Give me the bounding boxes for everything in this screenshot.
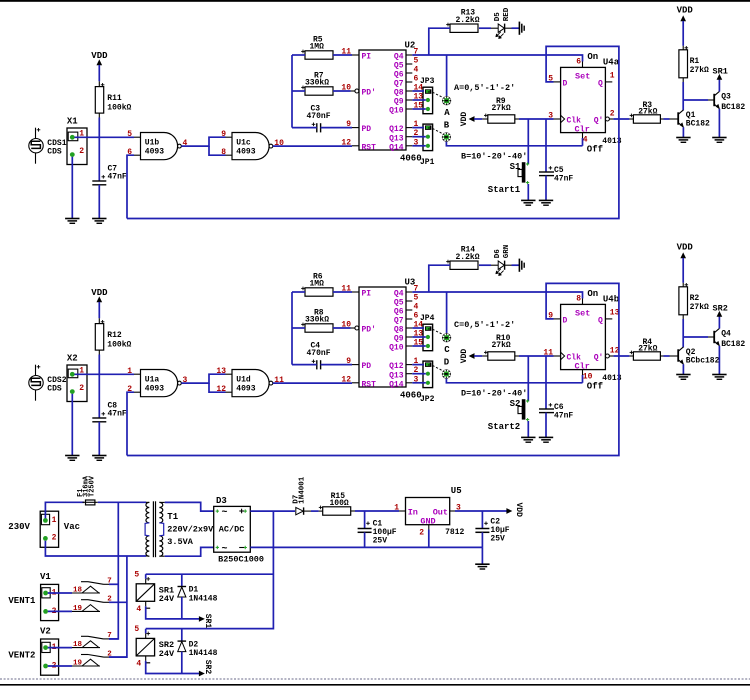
svg-text:A=0,5'-1'-2': A=0,5'-1'-2' — [454, 83, 515, 93]
svg-text:CDS: CDS — [47, 148, 62, 157]
svg-text:330kΩ: 330kΩ — [305, 79, 329, 88]
wire — [71, 394, 73, 456]
svg-text:220V/2x9V: 220V/2x9V — [167, 525, 214, 535]
relay coil SR1 — [134, 570, 175, 614]
svg-text:PD: PD — [362, 362, 372, 371]
svg-text:JP3: JP3 — [420, 77, 435, 86]
svg-text:C: C — [444, 345, 450, 355]
wire — [292, 327, 305, 329]
svg-text:JP4: JP4 — [420, 314, 435, 323]
wire — [98, 350, 100, 418]
svg-text:X2: X2 — [67, 353, 78, 363]
svg-text:47nF: 47nF — [554, 175, 573, 184]
wire — [311, 506, 323, 512]
svg-text:2: 2 — [419, 528, 424, 537]
svg-text:R12: R12 — [107, 331, 122, 340]
svg-text:GND: GND — [420, 516, 435, 526]
wire — [292, 90, 305, 92]
svg-text:6: 6 — [414, 312, 419, 321]
svg-text:D6: D6 — [494, 249, 502, 259]
svg-text:25V: 25V — [373, 537, 388, 546]
wire Clr — [582, 138, 584, 146]
wire — [98, 185, 100, 219]
svg-text:27kΩ: 27kΩ — [638, 107, 657, 116]
svg-text:Q4: Q4 — [394, 53, 404, 62]
svg-text:3.5VA: 3.5VA — [167, 537, 193, 547]
wire — [292, 364, 317, 366]
selector pad C — [433, 329, 452, 355]
wire — [412, 55, 582, 67]
svg-text:D2: D2 — [189, 640, 199, 649]
LED D6 — [479, 245, 512, 276]
net flag SR1 — [713, 67, 728, 92]
svg-text:4: 4 — [583, 136, 588, 145]
wire — [333, 90, 351, 92]
svg-text:24V: 24V — [159, 594, 175, 604]
svg-text:RST: RST — [362, 380, 377, 389]
svg-text:Q': Q' — [594, 354, 604, 363]
svg-text:Q9: Q9 — [394, 335, 404, 344]
wire — [333, 54, 352, 56]
svg-text:2: 2 — [79, 384, 84, 393]
svg-text:Q4: Q4 — [721, 330, 731, 339]
wire — [75, 136, 135, 138]
svg-text:AC/DC: AC/DC — [219, 525, 245, 535]
jumper JP2 — [420, 361, 435, 404]
svg-text:T1: T1 — [167, 512, 178, 522]
wire — [333, 327, 351, 329]
svg-text:VDD: VDD — [91, 51, 108, 61]
svg-text:PD: PD — [362, 125, 372, 134]
wire — [333, 291, 352, 293]
capacitor C5 — [539, 119, 573, 200]
photoresistor CDS2 — [29, 365, 67, 401]
wire — [291, 55, 293, 128]
wire Clr — [582, 375, 584, 383]
svg-text:27kΩ: 27kΩ — [492, 104, 511, 113]
ground — [519, 259, 524, 272]
ground — [521, 200, 535, 205]
power flag VDD — [507, 503, 523, 518]
svg-text:24V: 24V — [159, 649, 175, 659]
svg-text:In: In — [408, 508, 418, 518]
resistor R5 — [301, 35, 333, 59]
svg-text:5: 5 — [134, 625, 139, 634]
svg-text:18: 18 — [73, 586, 83, 594]
connector X1 — [67, 116, 87, 164]
resistor R12 — [95, 320, 131, 350]
relay contact — [72, 650, 127, 667]
fuse F1 — [77, 475, 98, 505]
ground — [676, 138, 690, 143]
svg-text:Set: Set — [575, 308, 590, 318]
svg-text:6: 6 — [576, 58, 581, 67]
svg-text:10: 10 — [341, 321, 351, 330]
connector V2 — [8, 627, 58, 676]
flip-flop U4a 4013 — [548, 52, 622, 155]
border bottom — [0, 684, 750, 686]
note C=0,5'-1'-2' — [454, 320, 515, 330]
svg-text:D=10'-20'-40': D=10'-20'-40' — [461, 389, 527, 399]
svg-text:C5: C5 — [554, 166, 564, 175]
wire — [412, 128, 426, 146]
svg-text:47nF: 47nF — [554, 412, 573, 421]
net flag SR2 — [199, 660, 212, 676]
svg-text:Q10: Q10 — [389, 107, 404, 116]
wire — [45, 541, 146, 556]
connector X2 — [67, 353, 87, 401]
ground — [475, 564, 489, 569]
svg-text:JP1: JP1 — [420, 158, 435, 167]
svg-text:2: 2 — [610, 110, 615, 119]
counter IC U2 4060 — [341, 41, 423, 164]
svg-text:A: A — [444, 108, 450, 118]
svg-text:CDS: CDS — [47, 385, 62, 394]
svg-text:T250V: T250V — [88, 475, 96, 497]
wire — [165, 502, 214, 511]
svg-text:VENT1: VENT1 — [8, 596, 36, 606]
wire — [412, 292, 582, 304]
svg-text:100kΩ: 100kΩ — [107, 341, 131, 350]
ground — [65, 456, 79, 461]
svg-text:5: 5 — [134, 570, 139, 579]
connector 230V — [8, 511, 80, 547]
jumper JP4 — [420, 314, 435, 351]
svg-text:B=10'-20'-40': B=10'-20'-40' — [461, 152, 527, 162]
svg-text:1: 1 — [127, 367, 132, 376]
svg-text:VDD: VDD — [460, 349, 469, 364]
svg-text:2: 2 — [79, 147, 84, 156]
svg-text:Q13: Q13 — [389, 371, 404, 380]
relay contact — [72, 632, 118, 649]
wire — [683, 99, 714, 101]
svg-text:11: 11 — [341, 48, 351, 57]
resistor R8 — [301, 308, 333, 332]
border top — [0, 0, 750, 2]
svg-text:B: B — [444, 120, 450, 130]
switch S2 — [488, 356, 529, 437]
ground — [92, 456, 106, 461]
nand gate U1a — [127, 367, 187, 397]
svg-text:U1b: U1b — [145, 139, 160, 148]
wire — [512, 264, 520, 266]
power flag VDD — [91, 288, 108, 324]
svg-text:Vac: Vac — [64, 522, 80, 532]
svg-text:Q4: Q4 — [394, 290, 404, 299]
svg-text:B250C1000: B250C1000 — [218, 555, 264, 565]
power flag VDD — [677, 243, 694, 287]
svg-text:100kΩ: 100kΩ — [107, 104, 131, 113]
svg-text:27kΩ: 27kΩ — [690, 66, 709, 75]
svg-text:PI: PI — [362, 53, 372, 62]
svg-text:Q9: Q9 — [394, 98, 404, 107]
svg-text:X1: X1 — [67, 116, 78, 126]
svg-text:BC182: BC182 — [721, 103, 745, 112]
wire — [412, 365, 426, 383]
svg-text:JP2: JP2 — [420, 395, 435, 404]
svg-text:SR1: SR1 — [713, 67, 728, 77]
wire — [181, 374, 225, 392]
ground — [539, 200, 553, 205]
svg-text:4093: 4093 — [236, 385, 255, 394]
wire — [273, 382, 352, 384]
svg-text:13: 13 — [216, 367, 226, 376]
svg-text:Clk: Clk — [567, 117, 582, 126]
wire — [146, 511, 274, 628]
power flag VDD — [460, 349, 488, 364]
resistor R15 — [323, 492, 406, 515]
svg-text:12: 12 — [341, 375, 351, 384]
svg-text:4: 4 — [136, 605, 141, 614]
wire — [127, 392, 134, 455]
svg-text:1: 1 — [52, 516, 57, 525]
svg-text:12: 12 — [341, 138, 351, 147]
svg-text:4093: 4093 — [145, 148, 164, 157]
svg-text:4060: 4060 — [400, 154, 422, 164]
svg-text:5: 5 — [127, 130, 132, 139]
svg-text:Q10: Q10 — [389, 344, 404, 353]
wire — [455, 510, 507, 512]
net flag SR1 — [199, 614, 212, 629]
svg-text:11: 11 — [341, 285, 351, 294]
svg-text:9: 9 — [346, 357, 351, 366]
svg-text:Off: Off — [587, 145, 603, 155]
wire — [109, 556, 127, 657]
svg-text:C6: C6 — [554, 403, 564, 412]
svg-text:U4a: U4a — [603, 58, 620, 68]
wire — [429, 28, 450, 55]
svg-text:4: 4 — [136, 660, 141, 669]
svg-text:19: 19 — [73, 659, 83, 667]
svg-text:S1: S1 — [510, 162, 521, 172]
wire — [146, 629, 200, 674]
ground — [712, 375, 726, 380]
svg-text:10: 10 — [583, 373, 593, 382]
svg-text:Q12: Q12 — [389, 362, 404, 371]
svg-text:47nF: 47nF — [108, 409, 127, 418]
svg-text:27kΩ: 27kΩ — [638, 344, 657, 353]
jumper JP3 — [420, 77, 435, 114]
svg-text:1N4001: 1N4001 — [299, 476, 307, 504]
svg-text:VDD: VDD — [677, 6, 694, 16]
net flag SR2 — [713, 304, 728, 329]
switch S1 — [488, 119, 529, 200]
resistor R3 — [613, 101, 678, 123]
wire — [250, 546, 482, 548]
svg-text:Set: Set — [575, 71, 590, 81]
capacitor C8 — [92, 401, 127, 422]
capacitor C1 — [358, 511, 397, 547]
svg-text:1: 1 — [394, 503, 399, 512]
svg-text:U4b: U4b — [603, 295, 619, 305]
svg-text:Q7: Q7 — [394, 317, 404, 326]
nand gate U1b — [127, 130, 187, 160]
svg-text:SR1: SR1 — [203, 614, 212, 629]
wire — [48, 593, 72, 611]
wire — [127, 155, 134, 218]
bridge rectifier D3 — [214, 496, 264, 565]
svg-text:Off: Off — [587, 382, 603, 392]
wire — [98, 113, 100, 181]
svg-text:2.2kΩ: 2.2kΩ — [456, 16, 480, 25]
svg-text:S2: S2 — [510, 399, 521, 409]
power flag VDD — [460, 112, 488, 127]
power flag VDD — [677, 6, 694, 50]
svg-text:BC182: BC182 — [721, 340, 745, 349]
svg-text:U1d: U1d — [236, 376, 251, 385]
svg-text:27kΩ: 27kΩ — [492, 341, 511, 350]
capacitor C7 — [92, 164, 127, 185]
svg-text:Q8: Q8 — [394, 89, 404, 98]
capacitor C3 — [307, 104, 331, 132]
svg-text:Clk: Clk — [567, 354, 582, 363]
svg-text:19: 19 — [73, 605, 83, 613]
wire — [321, 364, 352, 366]
note A=0,5'-1'-2' — [454, 83, 515, 93]
relay coil SR2 — [134, 625, 175, 669]
svg-text:V1: V1 — [40, 572, 51, 582]
svg-text:5: 5 — [414, 57, 419, 66]
wire — [250, 510, 295, 512]
wire — [291, 292, 293, 365]
svg-text:4093: 4093 — [145, 385, 164, 394]
svg-text:4: 4 — [414, 303, 419, 312]
wire — [515, 355, 554, 357]
svg-text:D5: D5 — [494, 12, 502, 22]
svg-text:100µF: 100µF — [373, 528, 397, 537]
resistor R11 — [95, 83, 131, 113]
svg-text:Q: Q — [598, 317, 603, 326]
svg-text:D3: D3 — [216, 496, 227, 506]
wire feedback — [127, 283, 619, 455]
photoresistor CDS1 — [29, 128, 67, 164]
svg-text:330kΩ: 330kΩ — [305, 316, 329, 325]
svg-text:1MΩ: 1MΩ — [310, 43, 325, 52]
svg-text:2: 2 — [52, 534, 57, 543]
svg-text:6: 6 — [414, 75, 419, 84]
wire — [292, 54, 305, 56]
svg-text:~: ~ — [222, 544, 228, 555]
wire — [446, 55, 448, 96]
transistor Q4 — [714, 328, 745, 374]
ground — [65, 219, 79, 224]
svg-text:PD': PD' — [362, 326, 376, 335]
svg-text:D: D — [563, 317, 568, 326]
transistor Q2 — [678, 347, 719, 374]
wire — [71, 157, 73, 219]
wire — [292, 127, 317, 129]
svg-text:9: 9 — [221, 130, 226, 139]
power flag VDD — [91, 51, 108, 87]
svg-text:U5: U5 — [451, 486, 462, 496]
capacitor C6 — [539, 356, 573, 437]
wire — [512, 27, 520, 29]
flip-flop U4b 4013 — [543, 289, 621, 392]
selector pad A — [433, 92, 452, 118]
svg-text:D1: D1 — [189, 586, 199, 595]
capacitor C4 — [307, 341, 331, 369]
svg-text:1MΩ: 1MΩ — [310, 280, 325, 289]
wire — [412, 91, 426, 109]
svg-text:12: 12 — [216, 385, 226, 394]
transistor Q3 — [714, 91, 745, 137]
nand gate U1c — [221, 130, 284, 160]
svg-text:VDD: VDD — [514, 503, 523, 518]
wire — [48, 648, 72, 666]
resistor R13 — [446, 9, 480, 33]
nand gate U1d — [216, 367, 284, 397]
svg-text:Q8: Q8 — [394, 326, 404, 335]
svg-text:SR2: SR2 — [203, 660, 212, 675]
svg-text:230V: 230V — [8, 522, 30, 532]
svg-text:Q12: Q12 — [389, 125, 404, 134]
svg-text:Q13: Q13 — [389, 134, 404, 143]
wire — [429, 265, 450, 292]
ground — [712, 138, 726, 143]
wire — [75, 373, 135, 375]
wire — [273, 145, 352, 147]
wire — [683, 336, 714, 338]
svg-text:RST: RST — [362, 143, 377, 152]
svg-text:VDD: VDD — [460, 112, 469, 127]
resistor R2 — [679, 287, 709, 348]
svg-text:Q': Q' — [594, 117, 604, 126]
svg-text:Q14: Q14 — [389, 143, 404, 152]
wire — [45, 502, 84, 518]
svg-text:10: 10 — [341, 84, 351, 93]
svg-text:1N4148: 1N4148 — [189, 649, 218, 658]
svg-text:SR2: SR2 — [713, 304, 728, 314]
svg-text:Q6: Q6 — [394, 71, 404, 80]
svg-text:Q3: Q3 — [721, 93, 731, 102]
svg-text:470nF: 470nF — [307, 349, 331, 358]
svg-text:D: D — [444, 357, 450, 367]
svg-text:GRN: GRN — [503, 245, 511, 259]
ground — [521, 437, 535, 442]
svg-text:D: D — [563, 80, 568, 89]
LED D5 — [479, 7, 512, 39]
wire — [165, 547, 214, 556]
svg-text:100Ω: 100Ω — [330, 499, 349, 508]
capacitor C2 — [475, 511, 509, 547]
svg-text:VDD: VDD — [677, 243, 694, 253]
svg-text:Q14: Q14 — [389, 380, 404, 389]
wire — [181, 137, 225, 155]
sheet separator dashed — [0, 678, 750, 680]
svg-text:Q6: Q6 — [394, 308, 404, 317]
resistor R14 — [446, 246, 480, 270]
resistor R4 — [613, 338, 678, 360]
ground — [539, 437, 553, 442]
svg-text:Start2: Start2 — [488, 422, 520, 432]
svg-text:8: 8 — [576, 295, 581, 304]
svg-text:27kΩ: 27kΩ — [690, 303, 709, 312]
svg-text:4093: 4093 — [236, 148, 255, 157]
transformer T1 — [145, 501, 214, 557]
wire — [146, 574, 200, 619]
wire — [515, 118, 554, 120]
jumper JP1 — [420, 124, 435, 167]
svg-text:On: On — [587, 52, 598, 62]
svg-text:~: ~ — [222, 508, 228, 519]
svg-text:PI: PI — [362, 290, 372, 299]
ground — [676, 375, 690, 380]
svg-text:7812: 7812 — [445, 528, 464, 537]
svg-text:VENT2: VENT2 — [8, 651, 35, 661]
wire — [98, 422, 100, 456]
ground — [519, 22, 524, 35]
svg-text:Q5: Q5 — [394, 299, 404, 308]
